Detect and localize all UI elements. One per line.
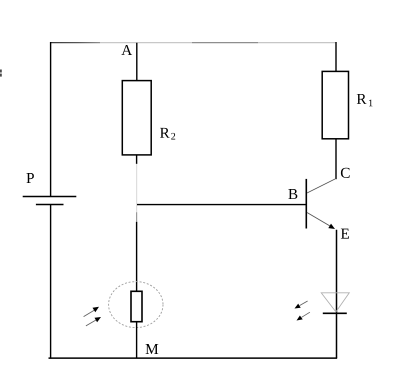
label R1 - R <box>357 94 367 104</box>
label C <box>341 168 350 178</box>
wire left rail upper (top corner to battery) <box>50 42 52 197</box>
LED light arrows <box>295 301 310 321</box>
LDR photoresistor (ellipse + rect) <box>109 282 163 328</box>
wire emitter down through LED to bottom rail <box>336 230 338 359</box>
label E <box>341 229 349 239</box>
transistor Q1 <box>306 179 335 229</box>
wire top rail (node A to corners, gray segments) <box>50 42 337 44</box>
resistor R2 <box>122 81 151 155</box>
wire bottom rail <box>49 357 338 359</box>
label B <box>288 189 297 199</box>
wire node A to R2 <box>136 43 138 81</box>
LED D1 (triangle + cathode bar) <box>321 293 349 314</box>
wire base (junction to transistor B) <box>137 204 307 206</box>
wire left rail lower (battery to bottom corner) <box>50 205 52 359</box>
label R2 - subscript 2 <box>171 133 175 140</box>
text fragment at left edge <box>0 70 2 77</box>
label A <box>121 45 132 55</box>
wire junction to LDR <box>136 222 138 291</box>
wire R1 to collector <box>335 139 337 179</box>
battery P <box>23 197 77 205</box>
label P <box>27 173 34 183</box>
wire R2 to base junction (fading gray) <box>136 155 138 222</box>
resistor R1 <box>322 71 348 138</box>
label R1 - subscript 1 <box>369 100 373 107</box>
label M <box>146 344 159 354</box>
wire top rail to R1 <box>335 42 337 72</box>
LDR light arrows <box>84 307 101 326</box>
label R2 - R <box>160 128 170 138</box>
wire LDR to bottom rail <box>136 323 138 359</box>
